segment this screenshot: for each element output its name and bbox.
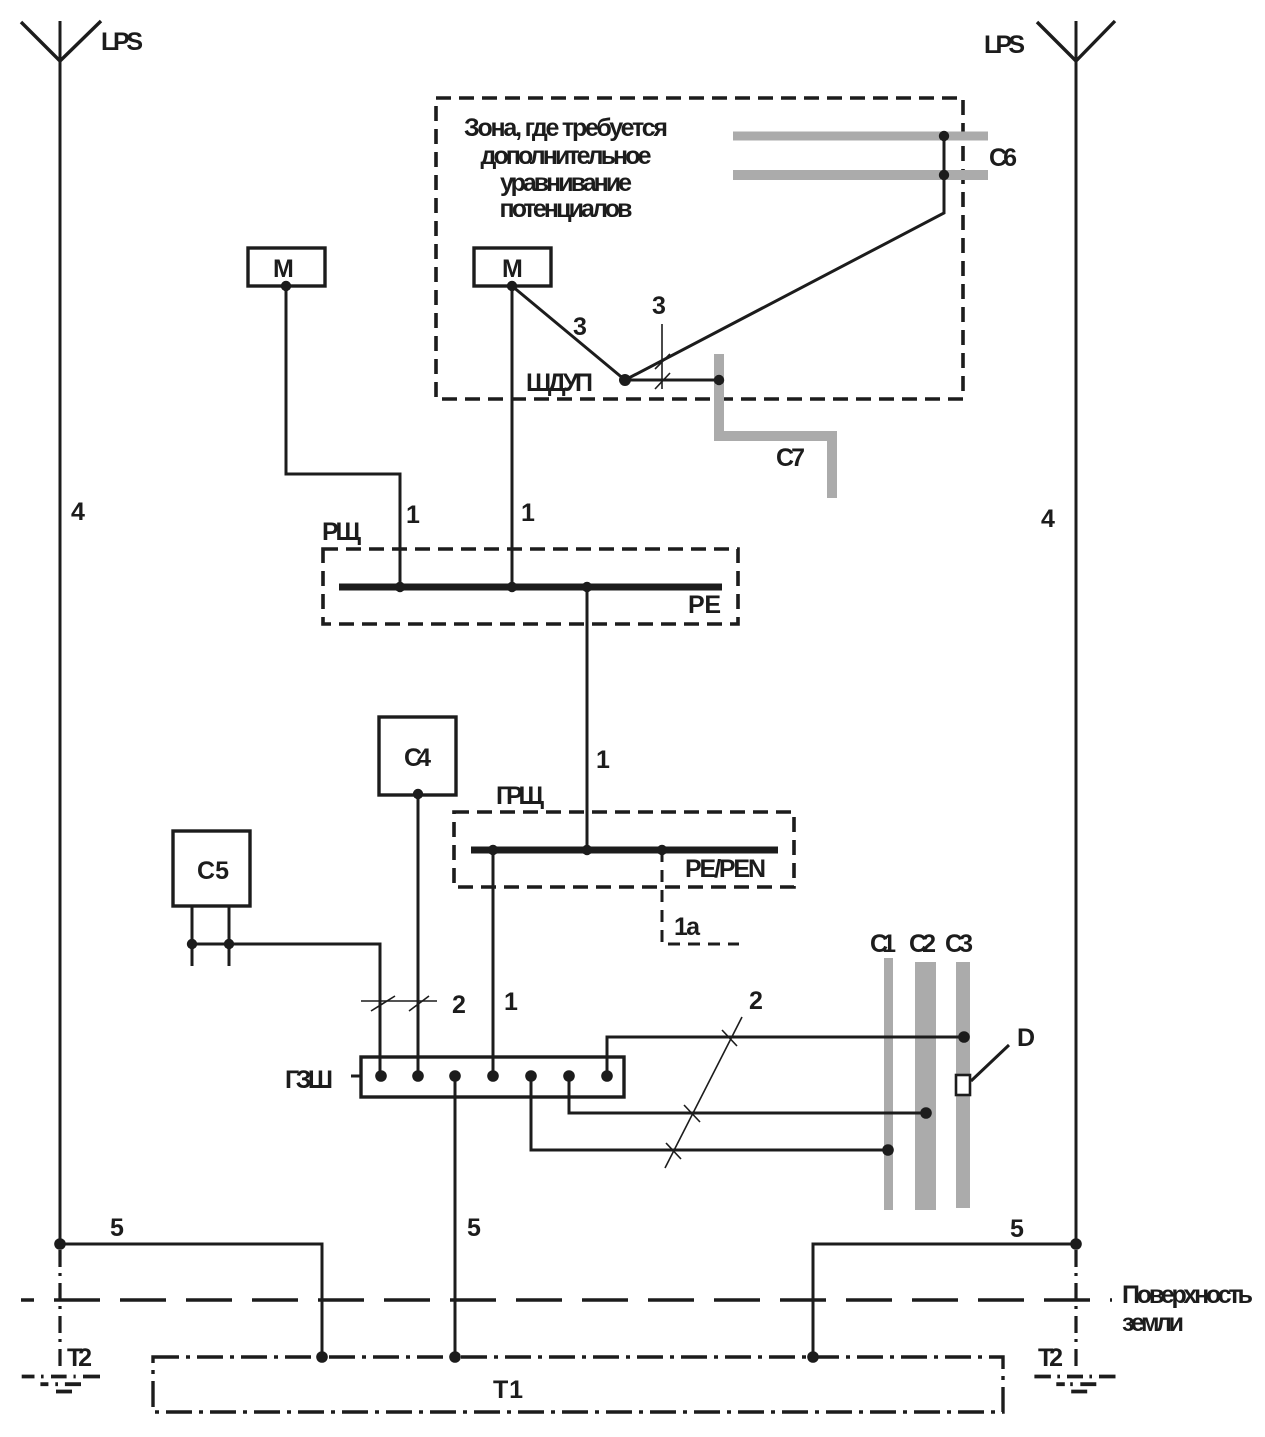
SHDUP node	[619, 374, 631, 386]
svg-text:3: 3	[652, 292, 666, 320]
clamp D white box on C3	[956, 1075, 970, 1095]
GZSh node 1	[375, 1070, 387, 1082]
svg-text:4: 4	[71, 498, 85, 526]
node on stub right	[224, 939, 234, 949]
svg-text:4: 4	[1041, 505, 1055, 533]
node on C7	[714, 375, 724, 385]
svg-text:РЩ: РЩ	[322, 518, 362, 546]
svg-text:PE/PEN: PE/PEN	[685, 855, 766, 883]
zone text	[464, 114, 668, 223]
svg-text:дополнительное: дополнительное	[481, 142, 652, 170]
T2 left earth electrode symbol	[22, 1377, 100, 1392]
svg-text:1: 1	[596, 746, 610, 774]
wire C6 to SHDUP (vertical then diagonal)	[625, 136, 944, 380]
conductive part C2 bar	[915, 962, 936, 1210]
wire RShch to GRShch	[586, 587, 589, 850]
conductive part C6 (two grey bars)	[733, 136, 988, 175]
LPS right air-terminal symbol	[1037, 21, 1115, 1244]
node on C3	[958, 1031, 970, 1043]
svg-text:2: 2	[749, 987, 763, 1015]
conductor group mark 2 right (leader with three ticks)	[665, 1017, 742, 1168]
svg-text:C1: C1	[870, 930, 896, 958]
svg-text:T1: T1	[493, 1376, 523, 1404]
node right on PE/PEN	[657, 845, 667, 855]
C5 stub right	[228, 906, 231, 966]
motor M left box	[248, 248, 325, 286]
conductive part C4 box	[379, 717, 456, 795]
svg-text:5: 5	[110, 1214, 124, 1242]
svg-text:Зона, где требуется: Зона, где требуется	[464, 114, 668, 142]
GRShch main distribution board dashed box	[454, 812, 794, 887]
C5 stub left	[191, 906, 194, 966]
svg-text:М: М	[502, 255, 523, 283]
node under M right	[507, 281, 517, 291]
svg-text:T2: T2	[1038, 1344, 1063, 1372]
GZSh node 2	[412, 1070, 424, 1082]
svg-text:5: 5	[467, 1214, 481, 1242]
T2 right earth electrode symbol	[1034, 1377, 1115, 1392]
conductive part C3 bar	[956, 962, 970, 1208]
dashed wire 1a	[662, 850, 739, 944]
wire C5 to GZSh	[192, 944, 380, 1076]
node on stub left	[187, 939, 197, 949]
wire GZSh to C2 (middle)	[569, 1076, 926, 1113]
svg-text:C4: C4	[404, 744, 431, 772]
svg-text:5: 5	[1010, 1215, 1024, 1243]
node on C1	[882, 1144, 894, 1156]
wire GZSh to C1 (bottom)	[531, 1076, 888, 1150]
svg-text:земли: земли	[1122, 1309, 1184, 1337]
svg-text:C3: C3	[945, 930, 973, 958]
svg-text:T2: T2	[67, 1344, 92, 1372]
svg-text:ГЗШ: ГЗШ	[285, 1066, 333, 1094]
node on left LPS conductor	[54, 1238, 66, 1250]
node left on PE/PEN	[488, 845, 498, 855]
node on right LPS conductor	[1070, 1238, 1082, 1250]
dashed zone box	[436, 98, 963, 399]
svg-text:C7: C7	[776, 444, 805, 472]
conductive part C1 bar	[884, 958, 893, 1210]
svg-text:1: 1	[504, 988, 518, 1016]
svg-text:ШДУП: ШДУП	[526, 369, 593, 397]
conductive part C5 box	[173, 831, 250, 906]
node middle on PE/PEN	[582, 845, 592, 855]
svg-text:D: D	[1017, 1024, 1035, 1052]
earthing wire left LPS to T1	[60, 1244, 322, 1357]
node T1 right	[807, 1351, 819, 1363]
GZSh main earthing busbar box	[361, 1057, 624, 1097]
node on C6 top bar	[939, 131, 949, 141]
node on C2	[920, 1107, 932, 1119]
motor M right box	[474, 248, 551, 286]
conductor group mark 2 (thin line with two ticks)	[361, 996, 437, 1011]
T2 left dash-dot drop	[58, 1250, 61, 1372]
PE/PEN bus bar	[471, 847, 778, 854]
svg-text:М: М	[273, 255, 294, 283]
svg-text:3: 3	[573, 313, 587, 341]
PE bus bar in RShch	[339, 584, 722, 591]
wire GZSh to C3 (top)	[607, 1037, 964, 1076]
RShch distribution board dashed box	[323, 549, 738, 624]
wire M right to RShch bus	[511, 286, 514, 587]
node under C4	[413, 789, 423, 799]
node M2 wire on PE bus	[507, 582, 517, 592]
earthing wire GZSh to T1	[454, 1076, 457, 1357]
svg-text:2: 2	[452, 991, 466, 1019]
node M1 wire on PE bus	[395, 582, 405, 592]
svg-text:LPS: LPS	[101, 28, 143, 56]
svg-text:C6: C6	[989, 144, 1017, 172]
svg-text:уравнивание: уравнивание	[500, 169, 632, 197]
ground surface dashed line	[21, 1298, 1112, 1302]
label ground surface	[1122, 1281, 1253, 1337]
GZSh node 7	[601, 1070, 613, 1082]
svg-text:потенциалов: потенциалов	[500, 195, 633, 223]
node T1 middle	[449, 1351, 461, 1363]
svg-text:C2: C2	[909, 930, 936, 958]
GZSh left tick	[351, 1075, 361, 1078]
wire C4 to GZSh	[417, 794, 420, 1076]
svg-text:1: 1	[406, 501, 420, 529]
wire M left to RShch bus	[286, 286, 400, 587]
node under M left	[281, 281, 291, 291]
node on C6 bottom bar	[939, 170, 949, 180]
GZSh node 3	[449, 1070, 461, 1082]
GZSh node 6	[563, 1070, 575, 1082]
label 3 with leader and ticks	[652, 292, 670, 389]
T1 foundation earth electrode dash-dot box	[153, 1357, 1003, 1412]
GZSh node 4	[487, 1070, 499, 1082]
earthing wire right LPS to T1	[813, 1244, 1076, 1357]
svg-text:ГРЩ: ГРЩ	[496, 782, 545, 810]
node down wire on PE bus	[582, 582, 592, 592]
leader to D	[971, 1045, 1009, 1081]
T2 right dash-dot drop	[1074, 1250, 1077, 1372]
wire M right to SHDUP diagonal	[512, 286, 625, 380]
node T1 left	[316, 1351, 328, 1363]
conductive part C7 (grey path)	[719, 354, 832, 498]
GZSh node 5	[525, 1070, 537, 1082]
svg-text:C5: C5	[197, 857, 229, 885]
wire GRShch to GZSh	[492, 850, 495, 1076]
svg-text:1а: 1а	[674, 913, 701, 941]
svg-text:1: 1	[521, 499, 535, 527]
svg-text:PE: PE	[688, 591, 721, 619]
svg-text:Поверхность: Поверхность	[1122, 1281, 1253, 1309]
svg-text:LPS: LPS	[984, 31, 1025, 59]
LPS left air-terminal symbol	[21, 21, 101, 1244]
wire SHDUP to C7	[625, 379, 719, 382]
